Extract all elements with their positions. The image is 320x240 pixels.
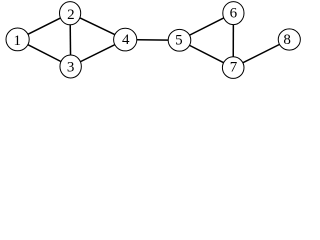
wire edge 5-7 [180, 40, 234, 67]
wire edge 4-5 [125, 39, 179, 42]
node 1 [6, 28, 29, 51]
node 3 [60, 55, 81, 78]
wire edge 2-3 [69, 13, 72, 66]
wire edge 6-7 [232, 13, 234, 68]
node 4 [114, 28, 137, 51]
svg-text:6: 6 [230, 6, 238, 22]
wire edge 7-8 [233, 40, 289, 68]
svg-text:8: 8 [283, 32, 291, 48]
node 7 [222, 57, 244, 79]
svg-text:4: 4 [122, 32, 130, 48]
node 2 [60, 2, 81, 25]
wire edge 1-3 [18, 39, 71, 66]
svg-text:7: 7 [230, 60, 238, 76]
node 6 [223, 2, 244, 25]
svg-text:5: 5 [175, 33, 183, 49]
node 8 [278, 29, 300, 50]
svg-text:2: 2 [67, 7, 75, 23]
svg-text:3: 3 [67, 60, 75, 76]
svg-text:1: 1 [13, 33, 21, 49]
wire edge 3-4 [71, 40, 126, 67]
node 5 [168, 29, 191, 51]
wire edge 2-4 [70, 13, 125, 39]
wire edge 5-6 [180, 13, 234, 40]
wire edge 1-2 [18, 13, 71, 39]
